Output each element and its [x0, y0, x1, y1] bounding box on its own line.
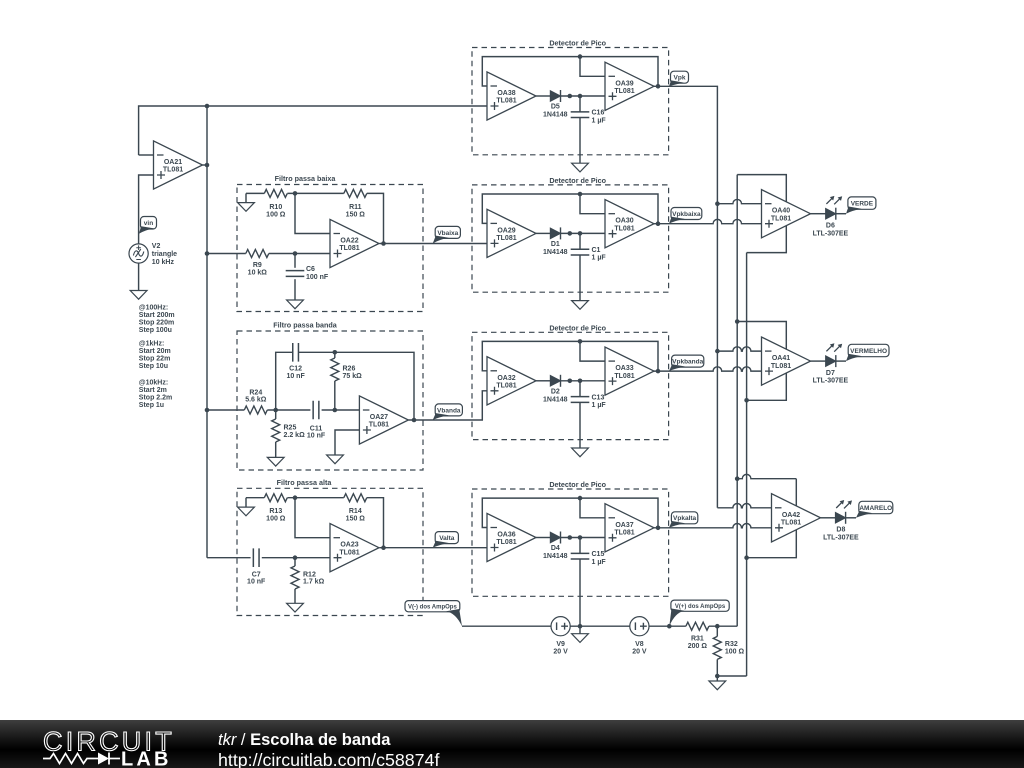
svg-text:C12: C12 [289, 366, 302, 373]
svg-text:Stop 22m: Stop 22m [139, 355, 171, 362]
svg-text:vin: vin [144, 220, 153, 227]
svg-text:LAB: LAB [121, 749, 172, 768]
svg-text:5.6 kΩ: 5.6 kΩ [245, 397, 267, 404]
svg-text:Valta: Valta [439, 535, 455, 542]
svg-text:V(-) dos AmpOps: V(-) dos AmpOps [408, 605, 457, 611]
svg-text:Step 1u: Step 1u [139, 402, 164, 409]
svg-text:TL081: TL081 [781, 520, 801, 527]
svg-text:OA40: OA40 [772, 208, 790, 215]
svg-text:100 nF: 100 nF [306, 274, 329, 281]
svg-text:Detector de Pico: Detector de Pico [549, 480, 606, 489]
svg-text:TL081: TL081 [614, 530, 634, 537]
svg-text:R9: R9 [253, 262, 262, 269]
svg-text:OA21: OA21 [164, 159, 182, 166]
svg-text:OA38: OA38 [497, 90, 515, 97]
svg-text:1 µF: 1 µF [592, 559, 607, 566]
svg-text:10 nF: 10 nF [307, 433, 326, 440]
svg-text:OA22: OA22 [340, 238, 358, 245]
svg-text:TL081: TL081 [496, 98, 516, 105]
svg-text:150 Ω: 150 Ω [346, 211, 366, 218]
svg-text:R32: R32 [725, 641, 738, 648]
svg-text:TL081: TL081 [614, 373, 634, 380]
svg-text:Vpk: Vpk [674, 75, 686, 82]
svg-text:OA37: OA37 [615, 522, 633, 529]
svg-text:20 V: 20 V [632, 648, 647, 655]
svg-text:C6: C6 [306, 266, 315, 273]
svg-text:@10kHz:: @10kHz: [139, 380, 168, 387]
svg-text:R24: R24 [249, 389, 262, 396]
svg-text:OA27: OA27 [370, 414, 388, 421]
svg-text:Step 100u: Step 100u [139, 327, 172, 334]
svg-text:OA42: OA42 [782, 512, 800, 519]
svg-text:Start 2m: Start 2m [139, 387, 167, 394]
svg-text:100 Ω: 100 Ω [266, 516, 286, 523]
svg-text:D5: D5 [551, 104, 560, 111]
svg-text:R26: R26 [343, 366, 356, 373]
svg-text:D6: D6 [826, 223, 835, 230]
svg-text:OA23: OA23 [340, 542, 358, 549]
svg-text:1.7 kΩ: 1.7 kΩ [303, 579, 325, 586]
svg-text:C7: C7 [252, 571, 261, 578]
svg-text:100 Ω: 100 Ω [725, 648, 745, 655]
svg-text:D8: D8 [836, 527, 845, 534]
svg-text:2.2 kΩ: 2.2 kΩ [284, 432, 306, 439]
svg-text:TL081: TL081 [614, 88, 634, 95]
svg-text:1N4148: 1N4148 [543, 112, 568, 119]
svg-text:R12: R12 [303, 571, 316, 578]
svg-text:Step 10u: Step 10u [139, 363, 168, 370]
svg-text:TL081: TL081 [369, 422, 389, 429]
svg-text:@100Hz:: @100Hz: [139, 305, 168, 312]
svg-text:D1: D1 [551, 241, 560, 248]
svg-text:TL081: TL081 [614, 225, 634, 232]
svg-text:1N4148: 1N4148 [543, 553, 568, 560]
svg-text:OA41: OA41 [772, 355, 790, 362]
svg-text:R31: R31 [691, 636, 704, 643]
svg-text:20 V: 20 V [553, 648, 568, 655]
svg-text:Vbanda: Vbanda [437, 407, 461, 414]
svg-text:C11: C11 [310, 425, 323, 432]
svg-text:10 nF: 10 nF [286, 373, 305, 380]
svg-text:TL081: TL081 [496, 539, 516, 546]
svg-text:D2: D2 [551, 389, 560, 396]
svg-text:TL081: TL081 [771, 363, 791, 370]
svg-text:OA32: OA32 [497, 375, 515, 382]
svg-text:triangle: triangle [152, 251, 177, 258]
svg-text:Filtro passa alta: Filtro passa alta [277, 478, 333, 487]
svg-text:Vbaixa: Vbaixa [437, 230, 458, 237]
svg-text:OA36: OA36 [497, 532, 515, 539]
svg-text:Vpkbaixa: Vpkbaixa [672, 211, 701, 218]
svg-text:TL081: TL081 [163, 167, 183, 174]
svg-text:R11: R11 [349, 204, 362, 211]
svg-text:TL081: TL081 [496, 383, 516, 390]
svg-text:Start 20m: Start 20m [139, 348, 171, 355]
svg-text:75 kΩ: 75 kΩ [343, 373, 363, 380]
svg-text:V8: V8 [635, 641, 644, 648]
svg-text:OA29: OA29 [497, 227, 515, 234]
svg-text:C15: C15 [592, 551, 605, 558]
svg-text:1 µF: 1 µF [592, 402, 607, 409]
svg-text:V9: V9 [556, 641, 565, 648]
svg-text:200 Ω: 200 Ω [688, 643, 708, 650]
svg-text:1 µF: 1 µF [592, 117, 607, 124]
svg-text:1N4148: 1N4148 [543, 249, 568, 256]
svg-text:R10: R10 [269, 204, 282, 211]
svg-text:OA30: OA30 [615, 218, 633, 225]
svg-text:10 kΩ: 10 kΩ [248, 269, 268, 276]
svg-text:LTL-307EE: LTL-307EE [813, 378, 849, 385]
svg-text:C16: C16 [592, 110, 605, 117]
svg-text:Stop 220m: Stop 220m [139, 319, 174, 326]
svg-text:C1: C1 [592, 247, 601, 254]
svg-text:R13: R13 [269, 508, 282, 515]
svg-text:V2: V2 [152, 243, 161, 250]
svg-text:1 µF: 1 µF [592, 255, 607, 262]
svg-text:V(+) dos AmpOps: V(+) dos AmpOps [675, 604, 726, 610]
svg-text:R14: R14 [349, 508, 362, 515]
svg-text:10 kHz: 10 kHz [152, 259, 175, 266]
svg-text:Filtro passa baixa: Filtro passa baixa [275, 174, 337, 183]
svg-text:Detector de Pico: Detector de Pico [549, 324, 606, 333]
svg-text:100 Ω: 100 Ω [266, 211, 286, 218]
svg-text:C13: C13 [592, 394, 605, 401]
svg-text:1N4148: 1N4148 [543, 396, 568, 403]
svg-text:150 Ω: 150 Ω [346, 516, 366, 523]
svg-text:TL081: TL081 [339, 549, 359, 556]
svg-text:VERMELHO: VERMELHO [850, 348, 887, 355]
svg-text:TL081: TL081 [771, 215, 791, 222]
svg-text:LTL-307EE: LTL-307EE [813, 230, 849, 237]
svg-text:TL081: TL081 [339, 245, 359, 252]
svg-text:D7: D7 [826, 370, 835, 377]
svg-text:OA33: OA33 [615, 365, 633, 372]
svg-text:10 nF: 10 nF [247, 579, 266, 586]
svg-text:@1kHz:: @1kHz: [139, 341, 165, 348]
svg-text:Start 200m: Start 200m [139, 312, 175, 319]
svg-text:AMARELO: AMARELO [859, 505, 892, 512]
svg-text:Vpkbanda: Vpkbanda [672, 359, 703, 366]
svg-text:TL081: TL081 [496, 235, 516, 242]
svg-text:D4: D4 [551, 545, 560, 552]
svg-text:Stop 2.2m: Stop 2.2m [139, 395, 172, 402]
svg-text:OA39: OA39 [615, 80, 633, 87]
svg-text:LTL-307EE: LTL-307EE [823, 534, 859, 541]
svg-text:Filtro passa banda: Filtro passa banda [273, 321, 338, 330]
svg-text:Detector de Pico: Detector de Pico [549, 176, 606, 185]
svg-text:Vpkalta: Vpkalta [673, 515, 697, 522]
svg-text:R25: R25 [284, 425, 297, 432]
svg-text:Detector de Pico: Detector de Pico [549, 39, 606, 48]
svg-text:VERDE: VERDE [851, 201, 874, 208]
